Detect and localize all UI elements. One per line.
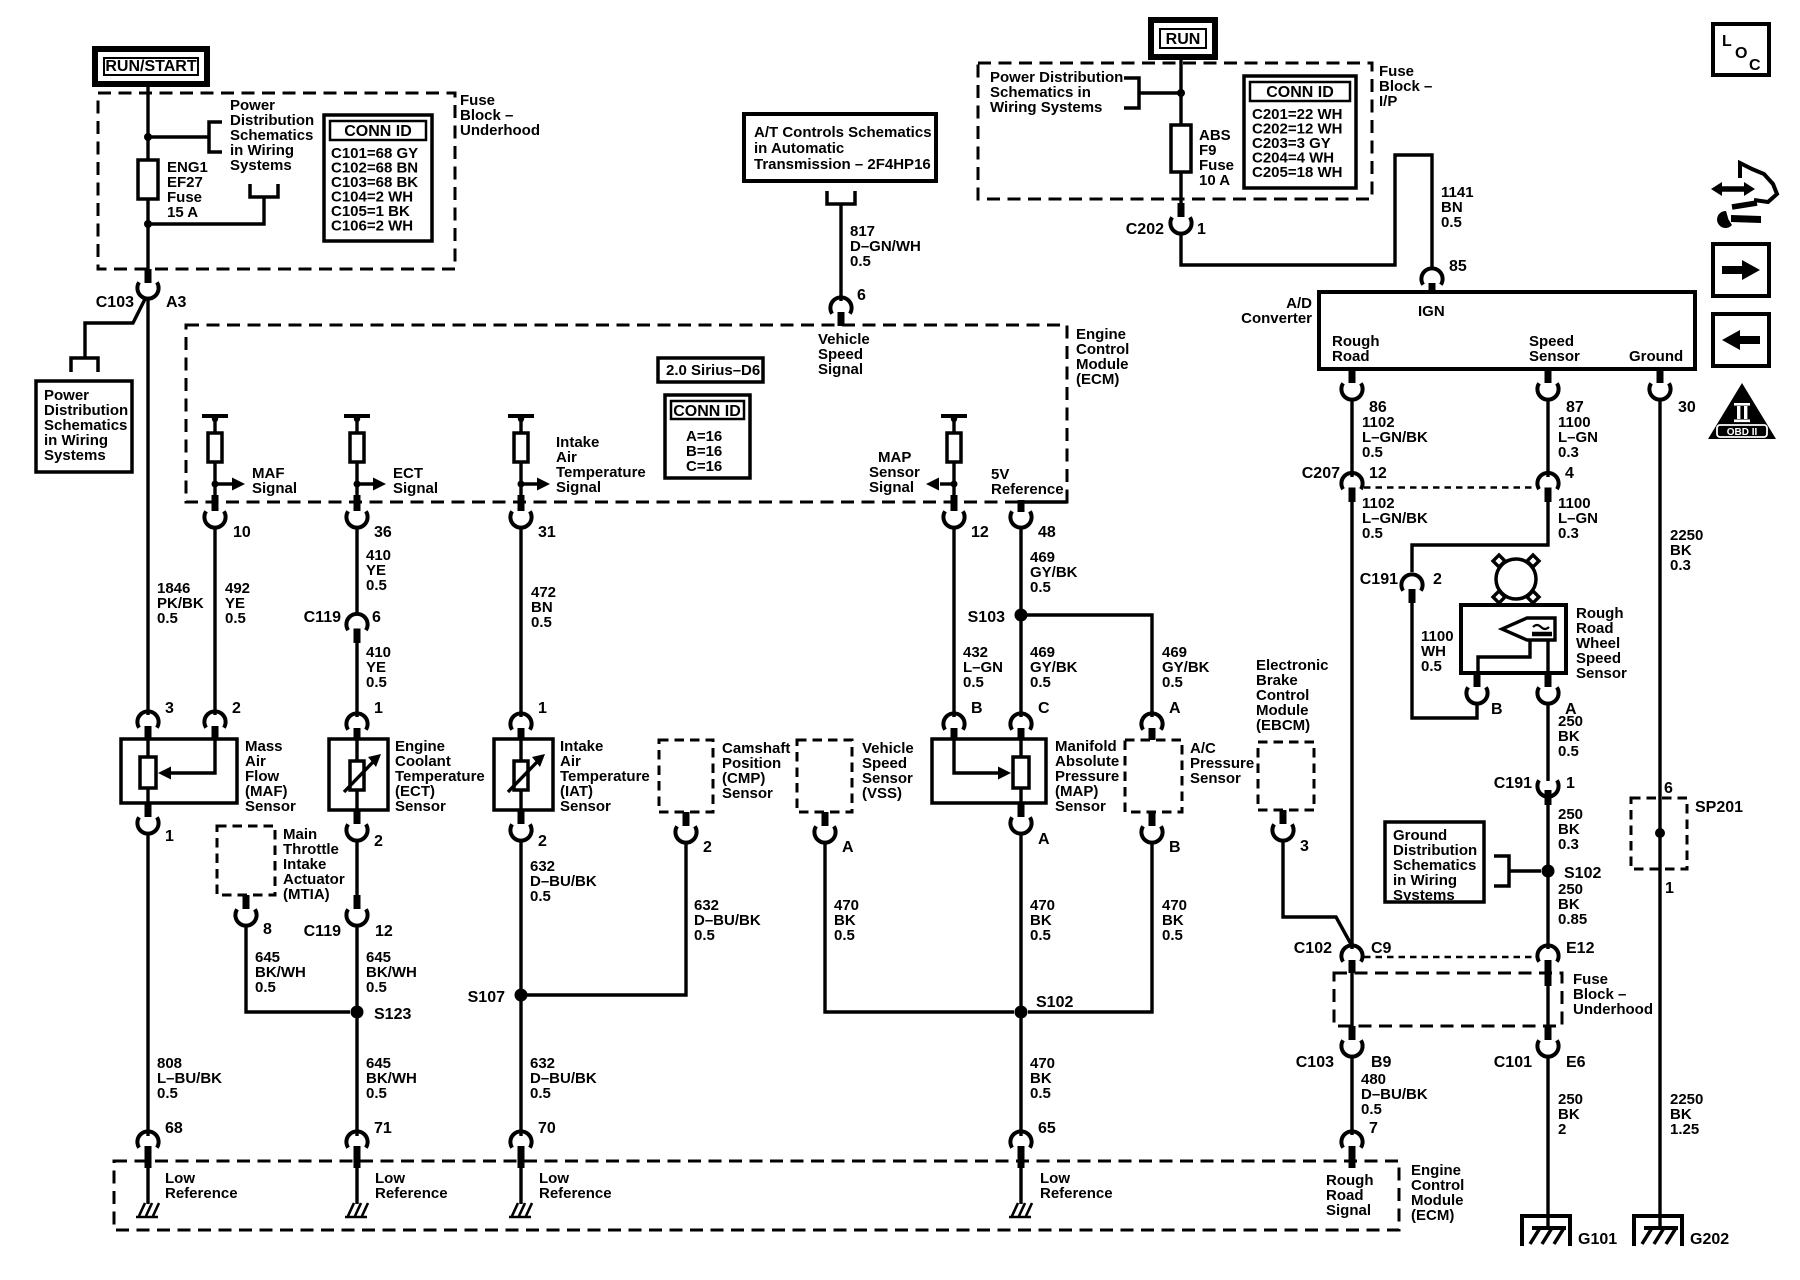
wire through fuse block (right) <box>1546 986 1549 1026</box>
svg-text:1: 1 <box>1665 880 1674 897</box>
connector MAF pin 1 <box>137 803 174 845</box>
svg-text:A/T Controls Schematics: A/T Controls Schematics <box>754 124 932 141</box>
connector MAF pin 2 <box>204 700 241 740</box>
connector pin 6 into ECM <box>830 287 866 326</box>
wire 1846 PK/BK from C103 down to MAF sensor pin 3 <box>146 297 149 715</box>
label RUN <box>1151 20 1215 57</box>
svg-text:Sensor: Sensor <box>1576 665 1627 682</box>
connector IAT pin 2 <box>510 810 547 850</box>
wire 469 GY/BK S103 to MAP pin C <box>1019 615 1022 717</box>
wire label 410 YE 0.5 upper <box>366 547 391 594</box>
wire 808 L-BU/BK MAF pin1 to ECM pin 68 <box>146 833 149 1136</box>
wire label 492 YE 0.5 <box>225 580 250 627</box>
svg-text:0.5: 0.5 <box>255 979 276 996</box>
svg-text:0.5: 0.5 <box>366 1085 387 1102</box>
svg-text:S123: S123 <box>374 1006 411 1023</box>
EBCM dashed box <box>1258 742 1314 810</box>
connector C101 pin E6 <box>1494 1026 1586 1071</box>
connector C119 pin 6 <box>304 609 381 643</box>
svg-text:C9: C9 <box>1371 940 1392 957</box>
connector pin 85 into A/D converter <box>1421 258 1466 294</box>
wire label 1100 L-GN 0.3 lower <box>1558 495 1598 542</box>
wire S103 to A/C pressure sensor <box>1021 615 1152 717</box>
splice S107 <box>468 989 528 1007</box>
wire label 2250 BK 0.3 <box>1670 527 1703 574</box>
wire 1102 pin86 to C207 <box>1350 399 1353 477</box>
svg-text:Sensor: Sensor <box>722 785 773 802</box>
wire label 469 GY/BK 0.5 mid <box>1030 644 1078 691</box>
connector C102 pin C9 <box>1294 940 1392 973</box>
svg-text:0.5: 0.5 <box>694 927 715 944</box>
connector row link C9 E12 <box>1364 956 1536 959</box>
svg-text:C103: C103 <box>1296 1054 1334 1071</box>
svg-text:G202: G202 <box>1690 1231 1729 1248</box>
wire label 250 BK 2 <box>1558 1091 1583 1138</box>
reference bracket (ground distribution) <box>1494 856 1509 886</box>
ECM connector pin 65 <box>1010 1120 1055 1168</box>
svg-text:0.5: 0.5 <box>834 927 855 944</box>
svg-text:0.5: 0.5 <box>1162 927 1183 944</box>
wire label 645 BK/WH 0.5 (MTIA) <box>255 949 306 996</box>
CONN ID table (I/P) <box>1244 76 1356 188</box>
wire through fuse block (left) <box>1350 973 1353 1026</box>
svg-text:Sensor: Sensor <box>1055 798 1106 815</box>
wire 817 D-GN/WH to ECM pin 6 <box>839 204 842 301</box>
svg-text:Signal: Signal <box>393 480 438 497</box>
icon LOC box <box>1713 24 1769 75</box>
svg-text:Reference: Reference <box>1040 1185 1113 1202</box>
svg-text:0.85: 0.85 <box>1558 911 1587 928</box>
ECM connector pin 71 <box>346 1120 391 1168</box>
connector IGN pin 87 <box>1537 369 1583 416</box>
svg-text:0.5: 0.5 <box>530 888 551 905</box>
svg-text:71: 71 <box>374 1120 392 1137</box>
wire label 632 D-BU/BK 0.5 (IAT) <box>530 858 597 905</box>
svg-text:Reference: Reference <box>165 1185 238 1202</box>
wire 470 BK A/C to S102 <box>1028 842 1152 1012</box>
svg-text:C191: C191 <box>1360 571 1398 588</box>
svg-text:0.5: 0.5 <box>1030 927 1051 944</box>
wire label 1141 BN 0.5 <box>1441 184 1474 231</box>
wire fuse to C103 <box>146 199 149 269</box>
wire bracket to RUN feed <box>1139 91 1181 94</box>
ECM connector pin 12 <box>943 495 988 541</box>
wire 632 D-BU/BK S107 to ECM pin 70 <box>519 995 522 1136</box>
fuse block I/P dashed box <box>978 63 1372 199</box>
fuse block underhood dashed box <box>98 93 455 269</box>
wire 645 BK/WH ECT to C119 pin 12 <box>355 840 358 909</box>
connector MAP pin C <box>1010 700 1050 740</box>
svg-text:0.5: 0.5 <box>366 979 387 996</box>
svg-text:SP201: SP201 <box>1695 799 1743 816</box>
connector IGN pin 86 <box>1341 369 1386 416</box>
MAP sensor U: Manifold Absolute Pressure <box>932 738 1119 815</box>
svg-text:12: 12 <box>375 923 393 940</box>
svg-text:in Automatic: in Automatic <box>754 140 844 157</box>
icon OBD II triangle <box>1708 383 1776 439</box>
note Power Distribution Schematics in Wiring Systems (fuse block) <box>230 97 314 174</box>
wire 492 YE pin10 to MAF pin 2 <box>213 527 216 715</box>
svg-text:1: 1 <box>1566 775 1575 792</box>
wire label 469 GY/BK 0.5 right <box>1162 644 1210 691</box>
connector C207 pin 12 <box>1302 465 1387 502</box>
svg-text:3: 3 <box>1300 838 1309 855</box>
svg-text:48: 48 <box>1038 524 1056 541</box>
svg-text:CONN ID: CONN ID <box>344 123 412 140</box>
svg-text:0.5: 0.5 <box>1030 579 1051 596</box>
connector EBCM pin 3 <box>1272 810 1309 855</box>
wire S107 to CMP sensor pin 2 <box>521 842 686 995</box>
label Engine Control Module (ECM) bottom <box>1411 1162 1464 1224</box>
A/C pressure sensor dashed box <box>1125 740 1254 812</box>
wire 470 BK MAP to S102 <box>1019 833 1022 1012</box>
svg-text:10 A: 10 A <box>1199 172 1230 189</box>
svg-text:0.5: 0.5 <box>366 577 387 594</box>
svg-text:Sensor: Sensor <box>245 798 296 815</box>
ground distribution note box <box>1385 822 1484 904</box>
svg-text:12: 12 <box>971 524 989 541</box>
svg-text:(ECM): (ECM) <box>1076 371 1119 388</box>
svg-text:8: 8 <box>263 921 272 938</box>
svg-text:0.5: 0.5 <box>366 674 387 691</box>
connector C207 pin 4 <box>1537 465 1574 502</box>
wire label 632 D-BU/BK 0.5 lower <box>530 1055 597 1102</box>
svg-text:Reference: Reference <box>539 1185 612 1202</box>
IAT pull-up resistor in ECM <box>508 416 534 495</box>
fuse ENG1 EF27 15 A <box>138 159 208 221</box>
svg-text:30: 30 <box>1678 399 1696 416</box>
svg-text:Transmission – 2F4HP16: Transmission – 2F4HP16 <box>754 156 931 173</box>
svg-text:E6: E6 <box>1566 1054 1586 1071</box>
connector C101 pin E12 <box>1537 940 1594 986</box>
wire RUN down to fuse ABS <box>1179 57 1182 125</box>
label Vehicle Speed Signal <box>818 331 870 378</box>
internal ground low reference (pin 70) <box>509 1168 612 1217</box>
wire label 1100 WH 0.5 <box>1421 628 1454 675</box>
IAT sensor U: Intake Air Temperature <box>494 738 650 815</box>
svg-text:4: 4 <box>1565 465 1574 482</box>
MAF Signal arrow <box>215 465 297 497</box>
svg-text:12: 12 <box>1369 465 1387 482</box>
wire label 470 BK 0.5 (VSS) <box>834 897 859 944</box>
CONN ID table (underhood) <box>324 115 432 241</box>
svg-text:(EBCM): (EBCM) <box>1256 717 1310 734</box>
rough road wheel symbol <box>1493 555 1539 603</box>
svg-text:A: A <box>1038 831 1050 848</box>
Intake Air Temperature Signal arrow <box>521 434 646 496</box>
svg-text:B: B <box>1169 839 1181 856</box>
rough road wheel speed sensor box <box>1461 605 1627 682</box>
svg-text:Signal: Signal <box>252 480 297 497</box>
connector C202 pin 1 <box>1126 203 1206 238</box>
label 5V Reference <box>991 466 1064 498</box>
connector C103 pin B9 <box>1296 1026 1392 1071</box>
A/D converter IGN box <box>1319 292 1695 369</box>
wire branch to power distribution note (left) <box>85 297 146 358</box>
ECM dashed outline <box>186 325 1067 502</box>
wire 645 BK/WH S123 to ECM pin 71 <box>355 1012 358 1136</box>
svg-text:Signal: Signal <box>556 479 601 496</box>
svg-text:0.5: 0.5 <box>1030 1085 1051 1102</box>
ground G202 <box>1634 1216 1729 1248</box>
wire to lower reference bracket <box>148 198 264 224</box>
svg-text:0.5: 0.5 <box>157 610 178 627</box>
connector C207 link line <box>1364 486 1536 489</box>
icon forward arrow box <box>1713 244 1769 296</box>
svg-text:B9: B9 <box>1371 1054 1392 1071</box>
ECM connector pin 31 <box>510 495 555 541</box>
wire 410 YE pin36 to C119 <box>355 527 358 614</box>
svg-text:C202: C202 <box>1126 221 1164 238</box>
svg-text:IGN: IGN <box>1418 303 1445 320</box>
svg-text:C205=18 WH: C205=18 WH <box>1252 164 1342 181</box>
wire bracket to S102 <box>1509 869 1541 872</box>
svg-text:A: A <box>1169 700 1181 717</box>
svg-text:S103: S103 <box>968 609 1005 626</box>
connector A/C pin A <box>1141 700 1181 740</box>
ECM connector pin 70 <box>510 1120 555 1168</box>
svg-text:36: 36 <box>374 524 392 541</box>
svg-text:S102: S102 <box>1564 865 1601 882</box>
svg-text:OBD II: OBD II <box>1727 427 1758 438</box>
splice S102 <box>1015 994 1074 1019</box>
note Power Distribution Schematics in Wiring Systems (I/P) <box>990 69 1123 116</box>
svg-text:Sensor: Sensor <box>395 798 446 815</box>
connector wheel sensor pin A <box>1537 673 1577 718</box>
connector MAP pin A <box>1010 803 1050 848</box>
svg-text:C103: C103 <box>96 294 134 311</box>
svg-text:B: B <box>971 700 983 717</box>
MAP Sensor Signal arrow <box>869 449 954 496</box>
CMP dashed box: Camshaft Position Sensor <box>659 740 790 812</box>
svg-text:O: O <box>1735 45 1747 62</box>
svg-text:Reference: Reference <box>991 481 1064 498</box>
wire 472 BN pin31 to IAT sensor <box>519 527 522 717</box>
note box Power Distribution Schematics in Wiring Systems (left) <box>36 381 132 472</box>
svg-text:0.5: 0.5 <box>850 253 871 270</box>
connector VSS pin A <box>814 812 854 856</box>
ECM connector pin 10 <box>204 495 250 541</box>
svg-text:B: B <box>1491 701 1503 718</box>
svg-text:2: 2 <box>538 833 547 850</box>
svg-text:0.5: 0.5 <box>1162 674 1183 691</box>
wire label 250 BK 0.85 <box>1558 881 1587 928</box>
wire label 1102 L-GN/BK 0.5 upper <box>1362 414 1428 461</box>
svg-text:(VSS): (VSS) <box>862 785 902 802</box>
svg-text:Signal: Signal <box>869 479 914 496</box>
wire label 470 BK 0.5 (A/C) <box>1162 897 1187 944</box>
wire 410 YE C119 to ECT sensor <box>355 643 358 717</box>
EBCM label Electronic Brake Control Module <box>1256 657 1329 734</box>
icon animal sketch with arrow and wrench <box>1711 163 1777 228</box>
wire label 1846 PK/BK 0.5 <box>157 580 204 627</box>
svg-text:0.5: 0.5 <box>531 614 552 631</box>
svg-text:Converter: Converter <box>1241 310 1312 327</box>
connector ECT pin 1 <box>346 700 383 740</box>
svg-text:6: 6 <box>857 287 866 304</box>
connector C191 pin 1 <box>1494 775 1575 805</box>
wire 1100 WH C191 to wheel sensor pin B <box>1412 603 1477 718</box>
svg-text:2: 2 <box>1558 1121 1566 1138</box>
wire label 250 BK 0.3 <box>1558 806 1583 853</box>
svg-text:C106=2 WH: C106=2 WH <box>331 218 413 235</box>
wire 1100 C207 to C191 pin 2 <box>1412 502 1548 572</box>
svg-text:C102: C102 <box>1294 940 1332 957</box>
splice S102 (right) <box>1542 865 1602 883</box>
ECT Signal arrow <box>357 465 438 497</box>
wire fuse to C202 <box>1179 172 1182 203</box>
wire 480 D-BU/BK B9 to ECM pin 7 <box>1350 1056 1353 1135</box>
wire RUN/START feed down to fuse <box>146 84 149 160</box>
svg-text:A3: A3 <box>166 294 187 311</box>
svg-text:C207: C207 <box>1302 465 1340 482</box>
svg-text:3: 3 <box>165 700 174 717</box>
wire 1102 C207 to C102 C9 <box>1350 502 1353 949</box>
svg-text:C: C <box>1749 57 1761 74</box>
svg-text:70: 70 <box>538 1120 556 1137</box>
svg-text:(ECM): (ECM) <box>1411 1207 1454 1224</box>
svg-text:RUN/START: RUN/START <box>105 58 196 75</box>
svg-text:Systems: Systems <box>230 157 292 174</box>
splice SP201 <box>1631 780 1743 897</box>
svg-text:L: L <box>1722 33 1732 50</box>
svg-text:S102: S102 <box>1036 994 1073 1011</box>
junction above fuse <box>144 133 152 141</box>
svg-text:0.5: 0.5 <box>1421 658 1442 675</box>
svg-text:15 A: 15 A <box>167 204 198 221</box>
svg-text:1: 1 <box>1197 221 1206 238</box>
icon back arrow box <box>1713 314 1769 366</box>
reference bracket above note box <box>71 358 98 372</box>
svg-text:CONN ID: CONN ID <box>1266 84 1334 101</box>
svg-text:E12: E12 <box>1566 940 1595 957</box>
svg-text:0.5: 0.5 <box>1361 1101 1382 1118</box>
svg-text:C101: C101 <box>1494 1054 1532 1071</box>
wire label 1102 L-GN/BK 0.5 lower <box>1362 495 1428 542</box>
wire 432 L-GN pin12 to MAP sensor pin B <box>952 527 955 717</box>
svg-text:1: 1 <box>165 828 174 845</box>
svg-text:C=16: C=16 <box>686 458 722 475</box>
ECM connector pin 68 <box>137 1120 182 1168</box>
label Engine Control Module (ECM) top <box>1076 326 1129 388</box>
svg-text:0.5: 0.5 <box>963 674 984 691</box>
svg-text:2: 2 <box>374 833 383 850</box>
wire 469 GY/BK pin48 to S103 <box>1019 527 1022 615</box>
wire 250 BK S102 to E12 <box>1546 871 1549 949</box>
svg-text:0.5: 0.5 <box>1441 214 1462 231</box>
wire EBCM to connector C102 C9 <box>1283 840 1352 946</box>
wire label 632 D-BU/BK 0.5 (CMP) <box>694 897 761 944</box>
wire 645 BK/WH MTIA to S123 <box>246 925 350 1012</box>
VSS dashed box: Vehicle Speed Sensor <box>797 740 914 812</box>
svg-text:1.25: 1.25 <box>1670 1121 1699 1138</box>
svg-text:0.5: 0.5 <box>1030 674 1051 691</box>
svg-text:0.3: 0.3 <box>1558 444 1579 461</box>
svg-text:Wiring Systems: Wiring Systems <box>990 99 1102 116</box>
ECM connector pin 7 rough road signal <box>1326 1120 1378 1219</box>
svg-text:10: 10 <box>233 524 251 541</box>
junction on RUN feed <box>1177 89 1185 97</box>
svg-text:C119: C119 <box>304 923 341 940</box>
svg-text:(MTIA): (MTIA) <box>283 886 330 903</box>
svg-text:C119: C119 <box>304 609 341 626</box>
svg-text:2.0 Sirius–D6: 2.0 Sirius–D6 <box>666 362 760 379</box>
connector C191 pin 2 <box>1360 571 1442 603</box>
svg-text:C: C <box>1038 700 1050 717</box>
wire 470 BK VSS to S102 <box>825 842 1014 1012</box>
svg-text:Sensor: Sensor <box>1190 770 1241 787</box>
label Fuse Block - I/P <box>1379 63 1432 110</box>
svg-text:7: 7 <box>1369 1120 1378 1137</box>
fuse ABS F9 10 A <box>1171 125 1234 189</box>
label RUN/START <box>95 49 207 84</box>
svg-text:1: 1 <box>538 700 547 717</box>
svg-text:Underhood: Underhood <box>460 122 540 139</box>
connector wheel sensor pin B <box>1466 673 1502 718</box>
wire label 2250 BK 1.25 <box>1670 1091 1703 1138</box>
svg-text:S107: S107 <box>468 989 505 1006</box>
wire label 250 BK 0.5 <box>1558 713 1583 760</box>
svg-text:0.5: 0.5 <box>530 1085 551 1102</box>
svg-text:Reference: Reference <box>375 1185 448 1202</box>
svg-text:Underhood: Underhood <box>1573 1001 1653 1018</box>
ECT pull-up resistor in ECM <box>344 416 370 495</box>
connector A/C pin B <box>1141 812 1180 856</box>
ECM connector pin 36 <box>346 495 391 541</box>
MAF pull-up resistor in ECM <box>202 416 228 495</box>
svg-text:85: 85 <box>1449 258 1467 275</box>
connector IAT pin 1 <box>510 700 547 740</box>
svg-text:0.5: 0.5 <box>1362 525 1383 542</box>
wire 2250 BK IGN pin 30 to G202 <box>1658 399 1661 1228</box>
CONN ID table (ECM) <box>665 395 750 478</box>
svg-text:Signal: Signal <box>1326 1202 1371 1219</box>
svg-text:0.5: 0.5 <box>1362 444 1383 461</box>
wire label 480 D-BU/BK 0.5 <box>1361 1071 1428 1118</box>
ground G101 <box>1522 1216 1617 1248</box>
wire 470 BK S102 to ECM pin 65 <box>1019 1012 1022 1136</box>
svg-text:Sensor: Sensor <box>1529 348 1580 365</box>
connector ECT pin 2 <box>346 810 383 850</box>
wire 250 BK pin A to C191 pin 1 <box>1546 703 1549 781</box>
label Fuse Block - Underhood <box>460 92 540 139</box>
MTIA dashed box: Main Throttle Intake Actuator <box>217 826 345 903</box>
svg-text:C191: C191 <box>1494 775 1532 792</box>
reference bracket under A/T box <box>827 191 855 204</box>
connector MTIA pin 8 <box>235 895 272 938</box>
MAF sensor U: Mass Air Flow <box>121 738 296 815</box>
svg-text:0.3: 0.3 <box>1558 525 1579 542</box>
ECM connector pin 48 <box>1010 500 1055 541</box>
svg-text:65: 65 <box>1038 1120 1056 1137</box>
svg-text:Systems: Systems <box>44 447 106 464</box>
svg-text:0.3: 0.3 <box>1558 836 1579 853</box>
wire 250 BK C191 to S102 <box>1546 805 1549 871</box>
svg-text:2: 2 <box>703 839 712 856</box>
internal ground low reference (pin 65) <box>1009 1168 1113 1217</box>
svg-text:Signal: Signal <box>818 361 863 378</box>
svg-text:0.5: 0.5 <box>225 610 246 627</box>
label A/D Converter <box>1241 295 1312 327</box>
svg-text:1: 1 <box>374 700 383 717</box>
wire label 1100 L-GN 0.3 upper <box>1558 414 1598 461</box>
svg-text:6: 6 <box>1664 780 1673 797</box>
internal ground low reference (pin 71) <box>345 1168 448 1217</box>
svg-text:2: 2 <box>232 700 241 717</box>
wire label 645 BK/WH 0.5 lower <box>366 1055 417 1102</box>
wire label 470 BK 0.5 lower <box>1030 1055 1055 1102</box>
connector C119 pin 12 <box>304 895 393 940</box>
